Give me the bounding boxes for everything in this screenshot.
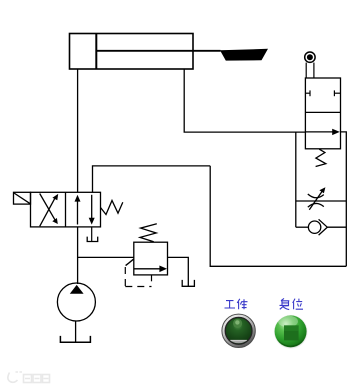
cylinder piston <box>95 34 97 70</box>
limit valve return spring <box>316 149 326 166</box>
pump suction line <box>75 321 77 342</box>
relief valve spring <box>140 224 157 242</box>
limit valve flow arrow <box>305 129 339 135</box>
crossed arrows left position <box>40 194 59 227</box>
wire pump to valve P port <box>77 227 79 284</box>
wire left rail of flow control <box>295 132 297 227</box>
suction tank <box>60 336 90 342</box>
closed port T right <box>334 90 340 96</box>
wire pump branch to relief valve <box>78 256 134 258</box>
label 复位 <box>280 298 304 309</box>
throttle adjust arrow <box>309 187 325 210</box>
wire valve T port to tank <box>91 227 93 241</box>
closed port T left <box>305 90 310 96</box>
limit valve U2 body <box>305 78 340 149</box>
button reset (green) <box>274 315 308 349</box>
roller stem <box>306 63 314 78</box>
button work (dark) <box>221 314 256 349</box>
wire rod-end port down <box>184 69 305 132</box>
pump P1 <box>57 283 95 321</box>
tank under valve <box>87 237 98 242</box>
wire valve out to right rail <box>341 132 347 266</box>
relief valve body <box>134 242 168 275</box>
wire cap-end port down to valve <box>77 69 79 192</box>
directional valve V2 body <box>31 192 101 227</box>
watermark <box>8 372 50 383</box>
wire bottom return rail <box>210 166 346 266</box>
valve V2 return spring <box>101 201 123 215</box>
cylinder body <box>70 34 194 70</box>
relief valve flow arrow <box>134 266 167 273</box>
relief pilot line <box>125 259 151 286</box>
relief valve outlet to tank <box>168 257 189 286</box>
cam wedge on rod <box>220 49 268 61</box>
straight arrows right position <box>75 195 95 225</box>
relief tank <box>182 280 194 286</box>
solenoid of valve V2 <box>14 192 31 204</box>
check valve V1 <box>296 219 347 235</box>
throttle valve line <box>296 200 347 202</box>
wire valve B to rail <box>93 166 211 192</box>
roller of limit valve <box>305 52 315 62</box>
label 工作 <box>225 299 248 309</box>
cylinder rod <box>96 50 220 52</box>
throttle arcs <box>308 194 324 198</box>
